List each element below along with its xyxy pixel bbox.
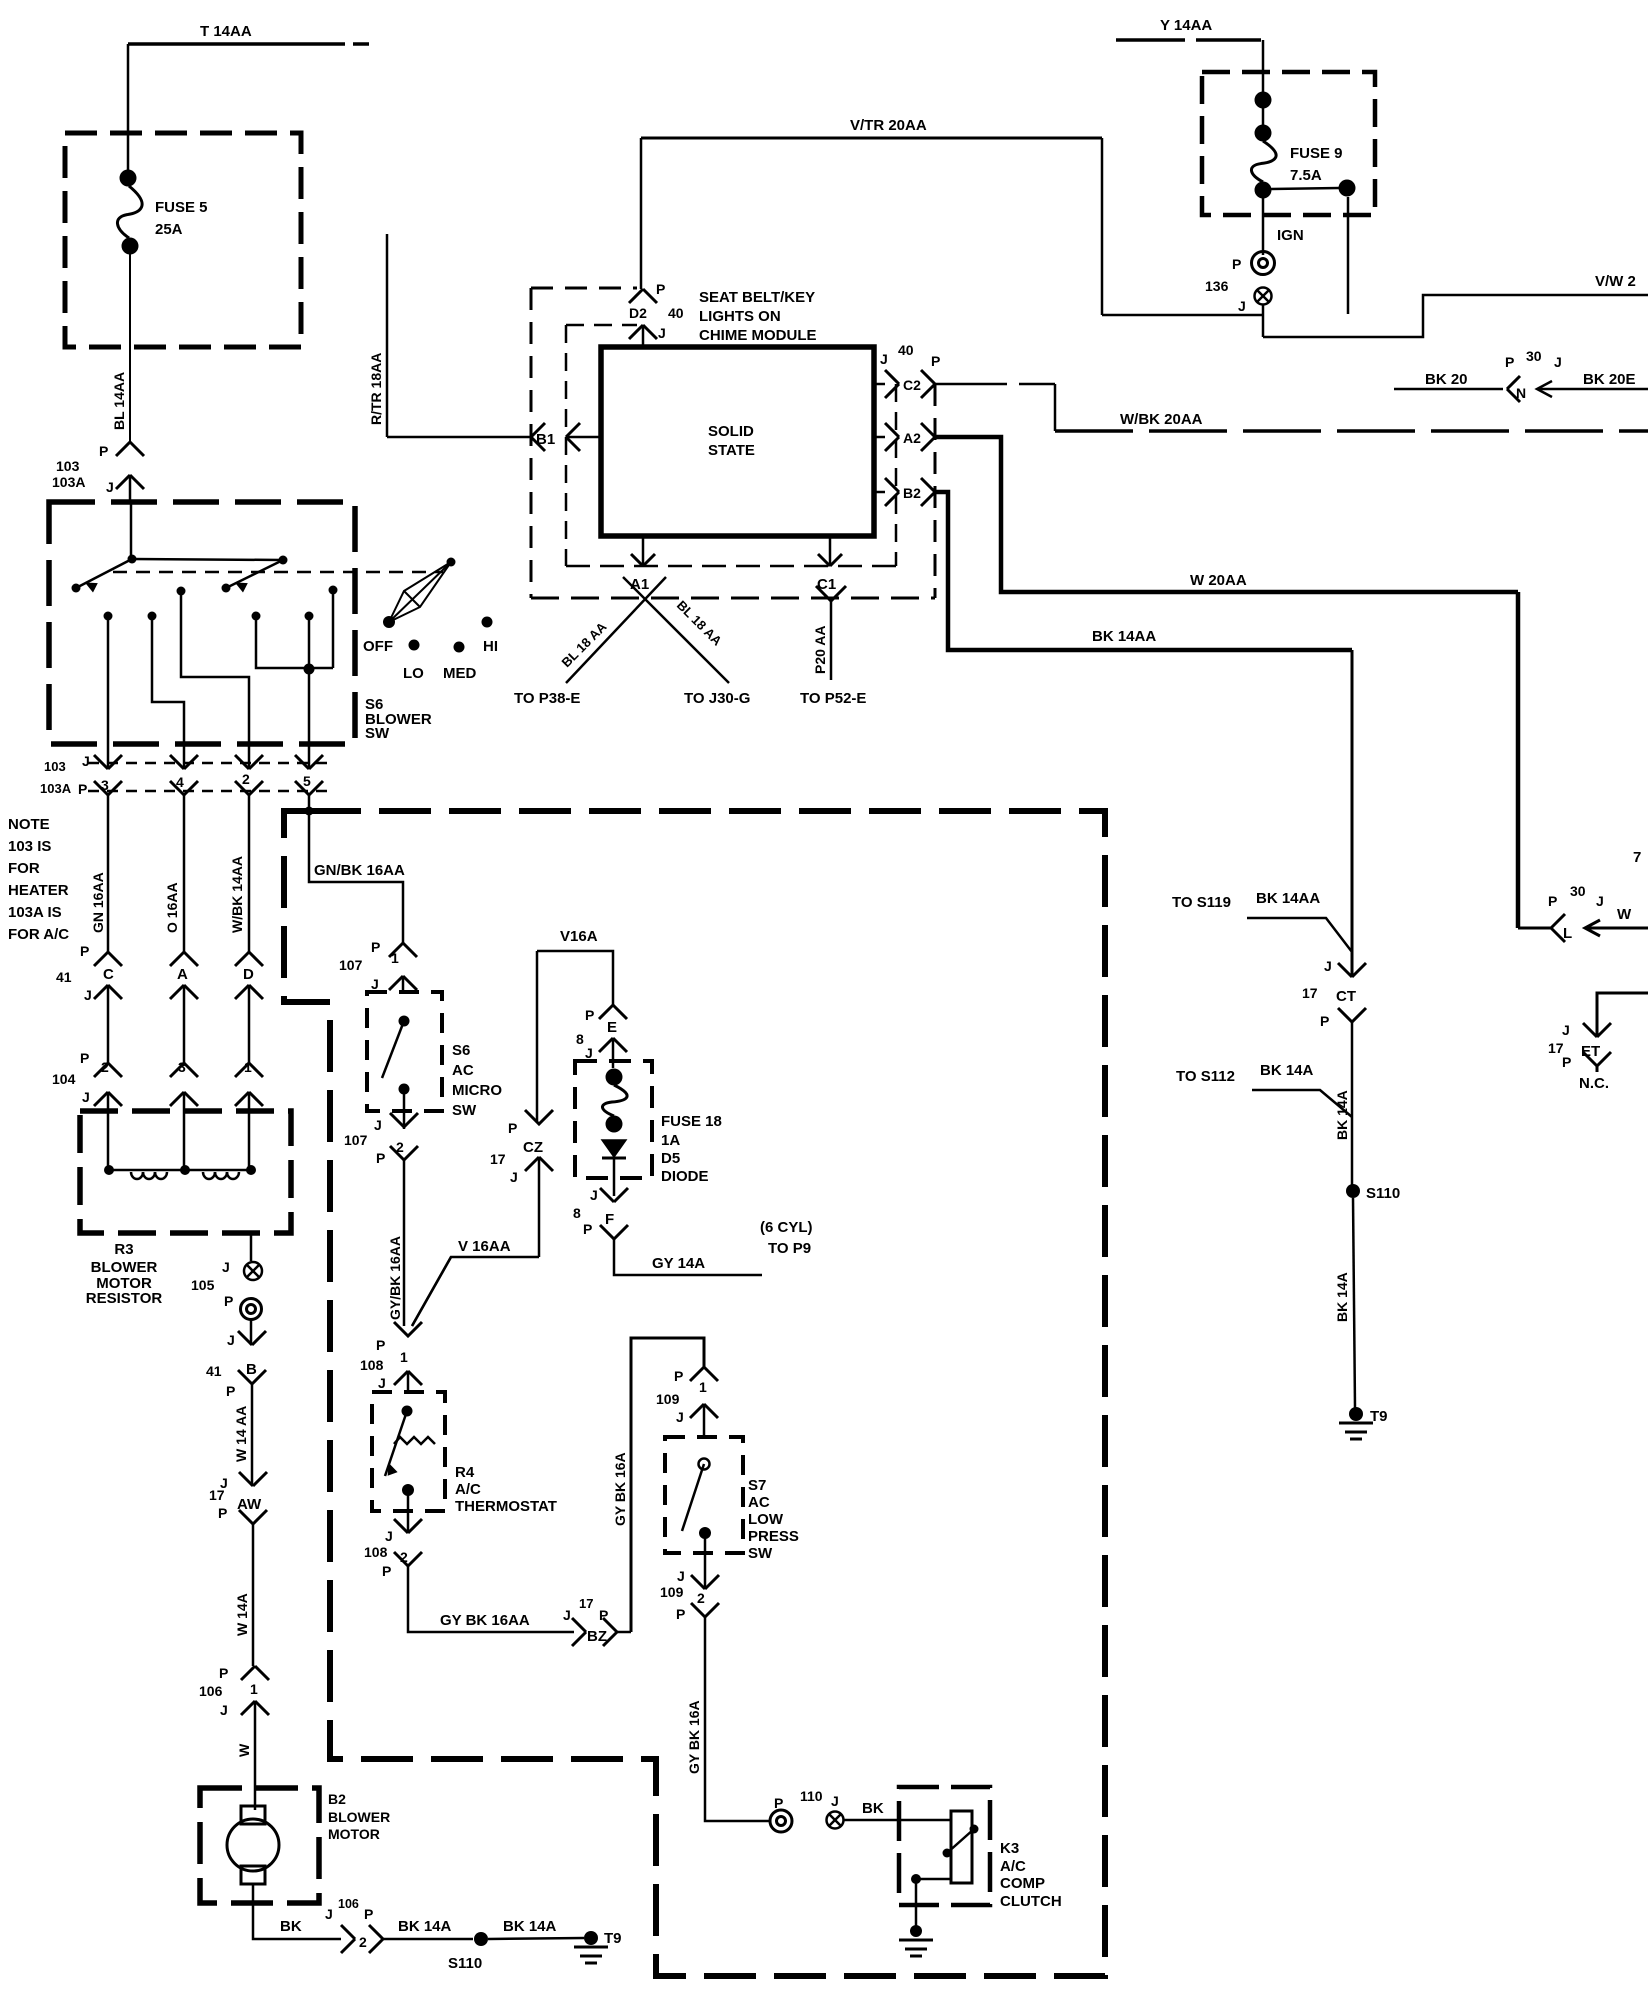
svg-text:V 16AA: V 16AA	[458, 1238, 511, 1255]
svg-text:D2: D2	[629, 305, 647, 321]
svg-text:J: J	[82, 753, 90, 769]
svg-text:104: 104	[52, 1071, 76, 1087]
svg-text:CZ: CZ	[523, 1139, 543, 1156]
svg-text:2: 2	[359, 1934, 367, 1950]
svg-text:103 IS: 103 IS	[8, 838, 51, 855]
svg-text:SW: SW	[452, 1102, 477, 1119]
svg-text:FOR A/C: FOR A/C	[8, 926, 69, 943]
svg-text:30: 30	[1526, 348, 1542, 364]
svg-text:A2: A2	[903, 430, 921, 446]
svg-text:J: J	[325, 1906, 333, 1922]
svg-text:J: J	[585, 1045, 593, 1061]
svg-text:BK: BK	[280, 1918, 302, 1935]
svg-text:BK 14A: BK 14A	[503, 1918, 557, 1935]
svg-text:S110: S110	[448, 1955, 482, 1972]
svg-text:P: P	[583, 1221, 592, 1237]
svg-text:B1: B1	[536, 431, 555, 448]
svg-text:IGN: IGN	[1277, 227, 1304, 244]
svg-text:N: N	[1516, 385, 1526, 401]
svg-text:S6: S6	[452, 1042, 470, 1059]
svg-text:107: 107	[344, 1132, 368, 1148]
svg-text:TO P9: TO P9	[768, 1240, 811, 1257]
svg-text:CHIME MODULE: CHIME MODULE	[699, 327, 817, 344]
svg-text:17: 17	[490, 1151, 506, 1167]
svg-text:7: 7	[1633, 849, 1641, 866]
svg-text:CT: CT	[1336, 988, 1356, 1005]
svg-text:40: 40	[898, 342, 914, 358]
svg-text:J: J	[385, 1528, 393, 1544]
svg-text:103A: 103A	[52, 474, 85, 490]
svg-text:1: 1	[391, 950, 399, 966]
svg-text:SW: SW	[365, 725, 390, 742]
svg-text:FUSE 18: FUSE 18	[661, 1113, 722, 1130]
svg-text:J: J	[563, 1607, 571, 1623]
svg-text:P: P	[78, 781, 87, 797]
svg-text:P: P	[376, 1150, 385, 1166]
svg-text:J: J	[1596, 893, 1604, 909]
svg-text:J: J	[1554, 354, 1562, 370]
svg-text:N.C.: N.C.	[1579, 1075, 1609, 1092]
svg-text:BK 14A: BK 14A	[1260, 1062, 1314, 1079]
svg-text:C: C	[103, 966, 114, 983]
svg-text:A1: A1	[630, 576, 649, 593]
svg-text:F: F	[605, 1211, 614, 1228]
svg-text:C2: C2	[903, 377, 921, 393]
svg-text:DIODE: DIODE	[661, 1168, 709, 1185]
svg-text:109: 109	[660, 1584, 684, 1600]
svg-text:BK 14AA: BK 14AA	[1092, 628, 1156, 645]
svg-text:17: 17	[1302, 985, 1318, 1001]
svg-text:TO P38-E: TO P38-E	[514, 690, 580, 707]
svg-text:A: A	[177, 966, 188, 983]
svg-text:2: 2	[697, 1590, 705, 1606]
svg-text:GY BK 16A: GY BK 16A	[612, 1452, 628, 1526]
svg-text:J: J	[374, 1117, 382, 1133]
svg-text:J: J	[880, 351, 888, 367]
svg-text:J: J	[510, 1169, 518, 1185]
svg-text:J: J	[1324, 958, 1332, 974]
svg-text:V16A: V16A	[560, 928, 598, 945]
svg-text:BK 14A: BK 14A	[1334, 1090, 1350, 1140]
svg-text:GY BK 16A: GY BK 16A	[686, 1700, 702, 1774]
svg-text:O 16AA: O 16AA	[164, 882, 180, 933]
svg-text:J: J	[831, 1793, 839, 1809]
svg-text:P: P	[774, 1795, 783, 1811]
svg-text:S7: S7	[748, 1477, 766, 1494]
svg-text:J: J	[106, 479, 114, 495]
svg-text:2: 2	[242, 771, 250, 787]
svg-text:S110: S110	[1366, 1185, 1400, 1202]
svg-text:T9: T9	[604, 1930, 622, 1947]
svg-text:PRESS: PRESS	[748, 1528, 799, 1545]
svg-text:D: D	[243, 966, 254, 983]
svg-text:P: P	[364, 1906, 373, 1922]
svg-text:D5: D5	[661, 1150, 680, 1167]
svg-text:TO S112: TO S112	[1176, 1068, 1235, 1085]
svg-text:P: P	[382, 1563, 391, 1579]
svg-text:BK 20: BK 20	[1425, 371, 1468, 388]
svg-text:J: J	[227, 1332, 235, 1348]
svg-text:HI: HI	[483, 638, 498, 655]
svg-text:BLOWER: BLOWER	[328, 1809, 390, 1825]
svg-text:41: 41	[56, 969, 72, 985]
svg-text:BK 14A: BK 14A	[398, 1918, 452, 1935]
svg-text:8: 8	[576, 1031, 584, 1047]
svg-text:P20 AA: P20 AA	[812, 625, 828, 674]
svg-text:1: 1	[250, 1681, 258, 1697]
svg-text:Y 14AA: Y 14AA	[1160, 17, 1212, 34]
svg-text:J: J	[84, 987, 92, 1003]
svg-text:J: J	[658, 325, 666, 341]
svg-text:V/TR 20AA: V/TR 20AA	[850, 117, 927, 134]
svg-text:MED: MED	[443, 665, 477, 682]
svg-text:LIGHTS ON: LIGHTS ON	[699, 308, 781, 325]
svg-text:J: J	[590, 1187, 598, 1203]
svg-text:5: 5	[303, 773, 311, 789]
svg-text:103A IS: 103A IS	[8, 904, 62, 921]
svg-text:THERMOSTAT: THERMOSTAT	[455, 1498, 557, 1515]
svg-text:P: P	[1548, 893, 1557, 909]
svg-text:1: 1	[400, 1349, 408, 1365]
svg-text:GN/BK 16AA: GN/BK 16AA	[314, 862, 405, 879]
svg-text:TO J30-G: TO J30-G	[684, 690, 750, 707]
svg-text:BK 14AA: BK 14AA	[1256, 890, 1320, 907]
svg-text:106: 106	[199, 1683, 223, 1699]
svg-text:T 14AA: T 14AA	[200, 23, 252, 40]
svg-text:GY BK 16AA: GY BK 16AA	[440, 1612, 530, 1629]
svg-text:OFF: OFF	[363, 638, 393, 655]
svg-text:FUSE 5: FUSE 5	[155, 199, 208, 216]
svg-text:GN 16AA: GN 16AA	[90, 872, 106, 933]
svg-text:J: J	[378, 1375, 386, 1391]
svg-text:109: 109	[656, 1391, 680, 1407]
svg-text:LOW: LOW	[748, 1511, 784, 1528]
svg-text:K3: K3	[1000, 1840, 1019, 1857]
svg-text:P: P	[1320, 1013, 1329, 1029]
svg-text:P: P	[80, 943, 89, 959]
svg-text:RESISTOR: RESISTOR	[86, 1290, 163, 1307]
svg-text:P: P	[508, 1120, 517, 1136]
svg-text:W: W	[1617, 906, 1632, 923]
svg-text:NOTE: NOTE	[8, 816, 50, 833]
svg-text:W 14 AA: W 14 AA	[233, 1406, 249, 1462]
svg-text:108: 108	[364, 1544, 388, 1560]
svg-text:17: 17	[579, 1596, 593, 1611]
svg-text:P: P	[1232, 256, 1241, 272]
svg-text:136: 136	[1205, 278, 1229, 294]
svg-text:103: 103	[44, 759, 66, 774]
svg-text:R/TR 18AA: R/TR 18AA	[368, 353, 384, 425]
svg-text:V/W 2: V/W 2	[1595, 273, 1636, 290]
svg-text:J: J	[677, 1568, 685, 1584]
svg-text:25A: 25A	[155, 221, 183, 238]
svg-text:FUSE 9: FUSE 9	[1290, 145, 1343, 162]
svg-text:P: P	[931, 353, 940, 369]
svg-text:P: P	[219, 1665, 228, 1681]
svg-text:P: P	[224, 1293, 233, 1309]
svg-text:J: J	[82, 1089, 90, 1105]
svg-text:SEAT BELT/KEY: SEAT BELT/KEY	[699, 289, 815, 306]
svg-text:110: 110	[800, 1788, 823, 1804]
svg-text:TO S119: TO S119	[1172, 894, 1231, 911]
svg-text:40: 40	[668, 305, 684, 321]
svg-text:FOR: FOR	[8, 860, 40, 877]
svg-text:W/BK 20AA: W/BK 20AA	[1120, 411, 1203, 428]
svg-text:108: 108	[360, 1357, 384, 1373]
svg-text:GY 14A: GY 14A	[652, 1255, 705, 1272]
svg-text:J: J	[220, 1702, 228, 1718]
svg-text:J: J	[371, 976, 379, 992]
svg-text:1: 1	[699, 1379, 707, 1395]
svg-text:106: 106	[338, 1897, 359, 1911]
svg-text:SW: SW	[748, 1545, 773, 1562]
svg-text:CLUTCH: CLUTCH	[1000, 1893, 1062, 1910]
svg-text:105: 105	[191, 1277, 215, 1293]
svg-text:HEATER: HEATER	[8, 882, 69, 899]
svg-text:MICRO: MICRO	[452, 1082, 502, 1099]
svg-text:STATE: STATE	[708, 442, 755, 459]
svg-text:W 20AA: W 20AA	[1190, 572, 1247, 589]
svg-text:A/C: A/C	[455, 1481, 481, 1498]
svg-text:P: P	[676, 1606, 685, 1622]
svg-text:P: P	[376, 1337, 385, 1353]
svg-text:L: L	[1563, 925, 1572, 942]
svg-text:J: J	[1562, 1022, 1570, 1038]
svg-text:P: P	[99, 443, 108, 459]
svg-text:P: P	[656, 281, 665, 297]
svg-text:MOTOR: MOTOR	[328, 1826, 380, 1842]
svg-text:TO P52-E: TO P52-E	[800, 690, 866, 707]
svg-text:B2: B2	[903, 485, 921, 501]
svg-text:P: P	[80, 1050, 89, 1066]
svg-text:P: P	[1505, 354, 1514, 370]
svg-text:J: J	[222, 1259, 230, 1275]
svg-text:P: P	[218, 1505, 227, 1521]
svg-text:8: 8	[573, 1205, 581, 1221]
svg-text:AC: AC	[452, 1062, 474, 1079]
svg-text:R4: R4	[455, 1464, 475, 1481]
svg-text:AC: AC	[748, 1494, 770, 1511]
svg-text:107: 107	[339, 957, 363, 973]
svg-text:P: P	[226, 1383, 235, 1399]
svg-text:J: J	[676, 1409, 684, 1425]
svg-text:1A: 1A	[661, 1132, 680, 1149]
svg-text:P: P	[371, 939, 380, 955]
svg-text:BK 14A: BK 14A	[1334, 1272, 1350, 1322]
svg-text:P: P	[674, 1368, 683, 1384]
svg-text:103: 103	[56, 458, 80, 474]
svg-text:J: J	[1238, 298, 1246, 314]
svg-text:103A: 103A	[40, 781, 72, 796]
svg-text:17: 17	[209, 1487, 225, 1503]
svg-text:B: B	[246, 1361, 257, 1378]
svg-text:BZ: BZ	[587, 1628, 607, 1645]
svg-text:W: W	[236, 1743, 252, 1757]
svg-text:41: 41	[206, 1363, 222, 1379]
svg-text:P: P	[585, 1007, 594, 1023]
svg-text:B2: B2	[328, 1791, 346, 1807]
svg-text:E: E	[607, 1019, 617, 1036]
svg-text:A/C: A/C	[1000, 1858, 1026, 1875]
svg-text:P: P	[1562, 1054, 1571, 1070]
svg-text:7.5A: 7.5A	[1290, 167, 1322, 184]
svg-text:GY/BK 16AA: GY/BK 16AA	[387, 1236, 403, 1320]
svg-text:W/BK 14AA: W/BK 14AA	[229, 856, 245, 933]
svg-text:SOLID: SOLID	[708, 423, 754, 440]
svg-text:W 14A: W 14A	[234, 1593, 250, 1636]
svg-text:BK 20E: BK 20E	[1583, 371, 1636, 388]
svg-text:BL 14AA: BL 14AA	[111, 372, 127, 430]
svg-text:BLOWER: BLOWER	[91, 1259, 158, 1276]
svg-text:R3: R3	[114, 1241, 133, 1258]
svg-text:COMP: COMP	[1000, 1875, 1045, 1892]
svg-text:(6 CYL): (6 CYL)	[760, 1219, 813, 1236]
svg-text:BK: BK	[862, 1800, 884, 1817]
svg-text:30: 30	[1570, 883, 1586, 899]
svg-text:LO: LO	[403, 665, 424, 682]
